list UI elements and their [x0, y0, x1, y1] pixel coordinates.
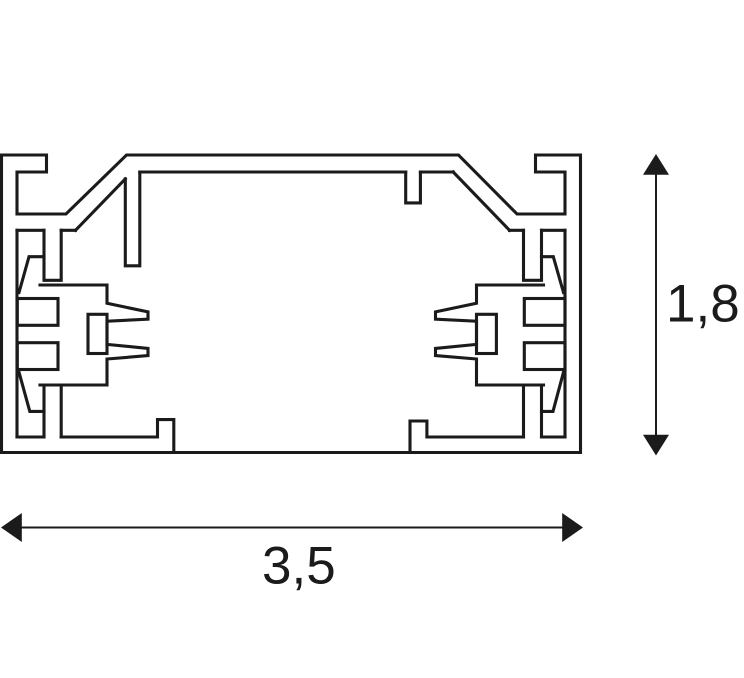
left bottom lip inner surface: [17, 435, 44, 438]
right upper stem: [524, 230, 542, 280]
right slab bottom segments: [510, 229, 524, 232]
left lower stem: [44, 385, 61, 437]
right lower stem: [524, 385, 542, 437]
left slab bottom segments: [17, 229, 44, 232]
horizontal dimension line 3,5: [19, 527, 565, 529]
right upper clip tooth: [542, 257, 564, 293]
right contact lower: [524, 343, 565, 370]
right small box: [477, 314, 497, 353]
svg-text:1,8: 1,8: [666, 275, 740, 334]
horizontal dimension arrowhead left: [1, 513, 22, 542]
inner top surface left segment: [140, 170, 406, 173]
left contact upper: [17, 299, 58, 326]
left small box: [88, 314, 107, 353]
right bottom lip inner surface: [542, 435, 566, 438]
left insulator body: [40, 285, 148, 385]
left long fin: [125, 172, 140, 266]
right contact upper: [524, 299, 565, 326]
left contact lower: [17, 343, 58, 370]
svg-text:3,5: 3,5: [262, 537, 336, 596]
left upper stem: [44, 230, 61, 280]
right short fin: [406, 172, 421, 203]
vertical dimension arrowhead bottom: [643, 435, 669, 456]
left wall inner surface lower: [15, 230, 18, 437]
vertical dimension line 1,8: [655, 172, 657, 437]
right lower clip tooth: [542, 372, 564, 411]
track profile outer contour: [2, 155, 581, 453]
vertical dimension arrowhead top: [643, 154, 669, 175]
left inner diagonal: [76, 179, 126, 230]
inner top surface right segment: [420, 170, 453, 173]
left lower clip tooth: [19, 372, 44, 411]
horizontal dimension arrowhead right: [562, 513, 583, 542]
right insulator body: [436, 285, 544, 385]
left upper clip tooth: [19, 257, 44, 293]
right inner diagonal: [453, 172, 509, 230]
right wall inner surface lower: [563, 230, 566, 437]
